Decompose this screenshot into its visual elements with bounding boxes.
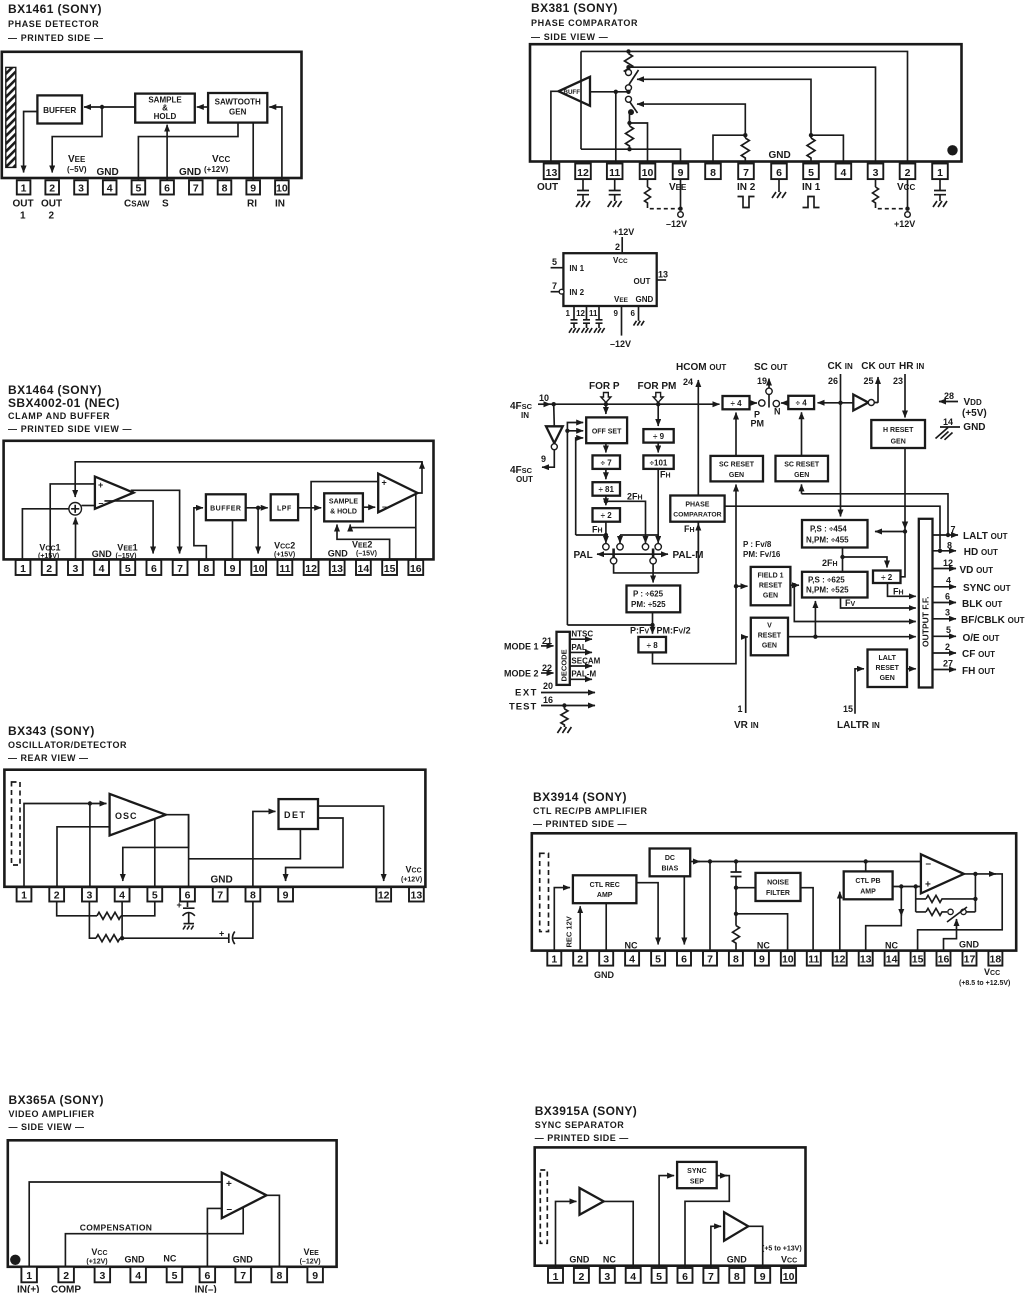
wire pin8 to DET input [253, 811, 276, 886]
svg-text:1: 1 [20, 211, 26, 222]
svg-text:RESET: RESET [758, 633, 782, 640]
svg-text:10: 10 [539, 393, 549, 403]
svg-text:÷ 7: ÷ 7 [601, 458, 613, 467]
svg-text:MODE 2: MODE 2 [504, 669, 539, 679]
svg-text:4: 4 [629, 954, 635, 966]
wire node a down to pin13 [900, 887, 902, 917]
svg-text:BX3914 (SONY): BX3914 (SONY) [533, 790, 627, 804]
wire summing to opamp1 inverting [82, 505, 95, 507]
svg-text:H RESET: H RESET [883, 427, 914, 434]
svg-text:8: 8 [947, 541, 952, 551]
resistor to pin8 [733, 888, 740, 951]
pin 3 [74, 180, 88, 194]
wire BUFF output to pin13 [551, 91, 559, 163]
phase comparator vertical pass + arrow into bottom [697, 496, 699, 573]
switch contact a [948, 909, 953, 914]
svg-text:15: 15 [912, 954, 924, 966]
pin 7 [173, 560, 188, 575]
svg-text:VEE: VEE [614, 295, 629, 304]
phase comparator block [670, 496, 724, 522]
buffer amp BUFF [559, 77, 591, 106]
pin 5 [167, 1267, 183, 1283]
pin 13 [544, 164, 560, 180]
svg-text:NOISE: NOISE [767, 880, 789, 887]
pin 14 [356, 560, 371, 575]
wire SC2 feedback rail to LALT line [802, 494, 949, 535]
wire sync sep out to pin6 [717, 1175, 727, 1177]
svg-text:— SIDE VIEW —: — SIDE VIEW — [9, 1122, 85, 1132]
node TEST pulldown [562, 703, 566, 707]
svg-text:OSCILLATOR/DETECTOR: OSCILLATOR/DETECTOR [8, 740, 127, 750]
wire div4N output to contact [781, 402, 788, 404]
svg-text:CSAW: CSAW [124, 199, 150, 210]
svg-text:(–15V): (–15V) [356, 551, 377, 558]
svg-text:DECODE: DECODE [560, 649, 569, 681]
svg-text:IN(–): IN(–) [195, 1285, 217, 1293]
CTL PB AMP block [844, 871, 893, 899]
pin 5 [652, 1268, 667, 1283]
external resistor at pin3 (dashed) [873, 179, 879, 204]
svg-text:26: 26 [828, 376, 838, 386]
svg-text:GEN: GEN [729, 472, 744, 479]
svg-text:VIDEO AMPLIFIER: VIDEO AMPLIFIER [9, 1109, 95, 1119]
svg-text:FOR PM: FOR PM [638, 381, 677, 392]
feedback resistor row1 [916, 895, 976, 902]
arrowhead up on feedback vertical [421, 462, 423, 467]
wire V reset out to output ff (O/E) [788, 636, 916, 638]
wire buffer2 out to pin9 [748, 1226, 763, 1267]
svg-text:NTSC: NTSC [571, 630, 593, 639]
svg-text:LALT OUT: LALT OUT [963, 531, 1008, 542]
svg-text:& HOLD: & HOLD [330, 509, 357, 516]
svg-text:CF OUT: CF OUT [962, 649, 995, 660]
wire div625a to Fv node [652, 612, 654, 625]
summing junction [69, 503, 82, 516]
ground under pin6 [778, 179, 780, 192]
OSC block [110, 794, 166, 836]
svg-text:–12V: –12V [666, 219, 687, 229]
wire pin4 down [121, 902, 123, 939]
wire IN1 pin5 [551, 267, 564, 269]
wire compensation pin2 [65, 1208, 243, 1267]
svg-text:+: + [98, 480, 103, 490]
svg-text:CLAMP AND BUFFER: CLAMP AND BUFFER [8, 411, 110, 421]
wire pin8 to BUFFER input [194, 508, 206, 560]
contact N [773, 400, 779, 406]
svg-text:VEE: VEE [304, 1247, 320, 1257]
wire div2 to FH node [605, 522, 607, 535]
svg-text:2FH: 2FH [627, 492, 643, 502]
svg-text:BX1464 (SONY): BX1464 (SONY) [8, 383, 102, 397]
wire FOR PM tap to div9 [657, 404, 659, 426]
wire R1 to pin5 [121, 902, 155, 916]
open terminal +12V [905, 212, 911, 218]
node H reset junction [903, 529, 907, 533]
pin 16 [408, 560, 423, 575]
wire Fv node to div8 [652, 625, 654, 634]
wire pin4 to IN1 node [811, 135, 843, 163]
wire pin6 to opamp minus [207, 1208, 221, 1266]
pin1 index dot [10, 1255, 20, 1265]
pin 2 [45, 180, 59, 194]
svg-text:— SIDE VIEW —: — SIDE VIEW — [531, 32, 608, 42]
pin 1 [932, 164, 948, 180]
open terminal -12V [678, 212, 684, 218]
wire sample-hold to buffer [84, 106, 135, 108]
dashed index bar [540, 1170, 547, 1243]
svg-text:GND: GND [594, 970, 615, 980]
svg-text:CK IN: CK IN [828, 361, 853, 372]
svg-text:RESET: RESET [759, 583, 783, 590]
node field1 tap [734, 584, 738, 588]
svg-text:18: 18 [990, 954, 1002, 966]
pin 1 [17, 887, 32, 901]
svg-text:13: 13 [331, 563, 343, 575]
output BLK [933, 602, 957, 604]
switch arm [947, 907, 967, 922]
svg-text:GEN: GEN [891, 439, 906, 446]
wire pin7 to buffer2 [711, 1226, 721, 1267]
svg-text:N,PM: ÷455: N,PM: ÷455 [806, 536, 849, 545]
node 2FH tap [604, 499, 608, 503]
svg-text:VCC: VCC [406, 865, 422, 875]
svg-text:FOR P: FOR P [589, 381, 620, 392]
wire LPF to sample&hold [298, 507, 321, 509]
wire OUT pin13 [657, 279, 666, 281]
svg-text:PM:FV/2: PM:FV/2 [657, 626, 691, 636]
svg-text:NC: NC [163, 1254, 176, 1264]
node CK in tap [838, 401, 842, 405]
pin 10 [275, 180, 289, 194]
pin 2 [58, 1267, 74, 1283]
svg-text:P : Fv/8: P : Fv/8 [743, 540, 772, 549]
svg-text:NC: NC [625, 941, 638, 951]
svg-text:(+12V): (+12V) [401, 877, 422, 884]
wire 4Fsc main rail [538, 403, 551, 405]
output BF/CBLK [933, 618, 957, 620]
node pin11 tap [614, 90, 618, 94]
wire pin12 to opamp2 plus [311, 482, 378, 560]
output CF [933, 652, 957, 654]
wire pin8 to IN2 node [713, 135, 745, 163]
pin 10 [251, 560, 266, 575]
wire pin3 vertical [89, 804, 91, 887]
output O/E [933, 635, 957, 637]
node NF input [734, 886, 738, 890]
svg-text:5: 5 [152, 890, 158, 902]
svg-text:7: 7 [951, 525, 956, 535]
svg-text:1: 1 [566, 309, 571, 318]
wire pin7 line to lower switch [637, 104, 745, 135]
svg-text:9: 9 [283, 890, 289, 902]
wire IN2 pin7 with bubble [551, 291, 560, 293]
cap lead pin1 [571, 306, 578, 328]
svg-text:1: 1 [20, 563, 26, 575]
P switch contact a [603, 544, 609, 550]
svg-text:9: 9 [760, 1271, 766, 1283]
node row1 right [973, 897, 977, 901]
pin1 index dot [947, 145, 957, 155]
divider by7 [593, 455, 621, 469]
pin 5 [132, 180, 146, 194]
IC body BX343 [4, 770, 425, 887]
svg-text:28: 28 [944, 391, 954, 401]
wire SC reset gen1 to div4 [735, 413, 737, 456]
svg-text:VEE: VEE [68, 154, 86, 165]
wire output vertical to rows [974, 874, 976, 912]
wire node to pin2 [52, 107, 102, 173]
pin 1 [16, 560, 31, 575]
pin 5 [147, 887, 162, 901]
svg-text:2: 2 [49, 211, 55, 222]
wire node to pin10 [257, 508, 259, 554]
svg-text:PAL-M: PAL-M [571, 670, 596, 679]
wire junction into div454 [875, 531, 905, 533]
svg-text:P : ÷625: P : ÷625 [633, 590, 664, 599]
svg-text:10: 10 [276, 183, 288, 195]
DC BIAS block [650, 849, 691, 877]
svg-text:BUFF: BUFF [564, 89, 581, 96]
svg-text:RI: RI [247, 199, 257, 210]
wire opamp out [964, 873, 996, 875]
svg-text:–: – [227, 1204, 233, 1215]
node FOR P tap [604, 402, 608, 406]
svg-text:8: 8 [276, 1270, 282, 1282]
wire FV out to output ff [841, 598, 916, 609]
label GND pin14 [940, 426, 960, 428]
wire R1 bottom to pin3 [629, 66, 876, 164]
svg-text:÷ 9: ÷ 9 [653, 432, 665, 441]
svg-text:SYNC: SYNC [687, 1168, 706, 1175]
pin 1 [548, 1268, 563, 1283]
wire FH rail left [576, 534, 606, 536]
wire opamp1 out to pin7 [132, 490, 180, 553]
svg-text:SC RESET: SC RESET [719, 462, 755, 469]
pin 3 [868, 164, 884, 180]
svg-text:3: 3 [72, 563, 78, 575]
H reset gen [871, 420, 925, 448]
wire top rail to Vcc pin2 [581, 51, 908, 163]
svg-text:VD OUT: VD OUT [960, 565, 994, 576]
switch arm lower [630, 102, 638, 114]
svg-text:+: + [226, 1179, 232, 1190]
external resistor at pin10 (dashed) [645, 179, 651, 204]
svg-text:19: 19 [757, 376, 767, 386]
V reset gen [751, 618, 788, 656]
node FH [604, 533, 608, 537]
wire inverter to 4Fsc out [542, 449, 554, 467]
svg-text:LPF: LPF [277, 506, 292, 513]
pin 7 [703, 1268, 718, 1283]
DET block [279, 799, 319, 829]
svg-text:SYNC OUT: SYNC OUT [963, 583, 1011, 594]
wire pin9 to buffer bottom [232, 520, 234, 560]
pin 4 [94, 560, 109, 575]
P switch contact b [617, 544, 623, 550]
svg-text:FV: FV [845, 598, 856, 608]
wire pin5 Csaw to sawtooth bottom [138, 123, 238, 181]
wire blob down to R2 [629, 112, 631, 123]
wire pin15 to S&H bottom left [337, 525, 390, 561]
wire offset to div7 [605, 443, 607, 452]
wire CKin node to inverter [841, 402, 879, 404]
svg-text:27: 27 [943, 659, 953, 669]
svg-text:(+12V): (+12V) [86, 1259, 107, 1266]
wire pin3 GND [605, 903, 607, 950]
wire decode out PAL-M [570, 678, 592, 680]
svg-text:4: 4 [107, 183, 113, 195]
wire pin16 to switch arm [944, 919, 957, 951]
pin 1 [17, 180, 31, 194]
svg-text:+: + [382, 478, 387, 488]
svg-text:BF/CBLK OUT: BF/CBLK OUT [961, 615, 1025, 626]
contact P/PM [759, 400, 765, 406]
wire DC BIAS out rail to opamp minus [690, 861, 700, 863]
wire HR IN vertical to H reset gen [904, 374, 906, 418]
pin 4 [626, 1268, 641, 1283]
wire SC reset gen2 to div4N [801, 412, 803, 456]
wire DET out2 to pin9 [286, 818, 343, 881]
wire PM wiper to div625 [652, 564, 654, 583]
OFF SET block [586, 417, 627, 443]
wire div8 out to field1/SC1 vertical [653, 492, 737, 664]
LPF block [271, 494, 298, 520]
DECODE block [557, 632, 570, 685]
svg-text:13: 13 [658, 270, 668, 280]
opamp U1 [222, 1173, 267, 1219]
wire buffer1 out to pin4 [604, 1201, 634, 1267]
buffer1 [580, 1188, 604, 1215]
wire 2FH to PM switch [606, 501, 646, 543]
svg-text:AMP: AMP [597, 892, 613, 899]
svg-text:16: 16 [543, 695, 553, 705]
svg-text:VCC: VCC [91, 1247, 107, 1257]
svg-text:9: 9 [678, 167, 684, 179]
wire cap to pin8 [234, 902, 253, 939]
pin 8 [272, 1267, 288, 1283]
svg-text:P,S : ÷454: P,S : ÷454 [810, 525, 847, 534]
SC reset gen 1 [711, 456, 764, 482]
svg-text:REC 12V: REC 12V [565, 916, 574, 947]
node buffer out [256, 506, 260, 510]
svg-text:BX365A (SONY): BX365A (SONY) [9, 1093, 104, 1107]
svg-text:DET: DET [284, 810, 307, 820]
wire FH to offset input3 [576, 438, 584, 535]
resistor R2 [626, 123, 634, 147]
svg-text:23: 23 [893, 376, 903, 386]
svg-text:9: 9 [759, 954, 765, 966]
svg-text:BX343 (SONY): BX343 (SONY) [8, 724, 95, 738]
svg-text:FH: FH [684, 524, 695, 534]
svg-text:8: 8 [734, 1271, 740, 1283]
output HD [933, 550, 957, 552]
wire CK OUT vertical [877, 377, 879, 403]
IC body BX1461 [2, 52, 302, 178]
svg-text:3: 3 [78, 183, 84, 195]
wire pin1 to OSC input [24, 804, 107, 887]
node b [914, 884, 918, 888]
svg-text:GEN: GEN [763, 593, 778, 600]
svg-text:(–5V): (–5V) [67, 165, 87, 174]
svg-text:VEE1: VEE1 [117, 543, 137, 553]
pin 10 [781, 1268, 796, 1283]
buffer block [206, 494, 246, 520]
svg-text:— REAR VIEW —: — REAR VIEW — [8, 753, 89, 763]
buffer U1 [37, 95, 82, 123]
IC body BX365A [8, 1140, 337, 1267]
pin 2 [42, 560, 57, 575]
svg-text:÷ 4: ÷ 4 [796, 399, 808, 408]
sawtooth gen block [208, 93, 267, 123]
svg-text:GEN: GEN [880, 675, 895, 682]
svg-text:GEN: GEN [229, 108, 247, 117]
node R2 bottom [627, 147, 631, 151]
svg-text:2: 2 [54, 890, 60, 902]
svg-text:OUT: OUT [13, 199, 34, 210]
P switch wiper bar [612, 549, 615, 558]
pin 8 [246, 887, 261, 901]
svg-text:4: 4 [946, 576, 951, 586]
pin 7 [738, 164, 754, 180]
wire pin9 down to -12V node [680, 179, 682, 210]
wire OSC out down to pin6 [188, 815, 190, 887]
svg-text:3: 3 [873, 167, 879, 179]
svg-text:SAMPLE: SAMPLE [329, 499, 359, 506]
svg-text:(+15V): (+15V) [274, 552, 295, 559]
svg-text:10: 10 [642, 167, 654, 179]
node pin10 branch [734, 912, 738, 916]
node +12V junction [905, 207, 909, 211]
pin 12 [376, 887, 391, 901]
svg-text:4: 4 [119, 890, 125, 902]
svg-text:5: 5 [656, 1271, 662, 1283]
svg-text:NC: NC [885, 941, 898, 951]
wire LALT reset out to output ff [907, 668, 916, 670]
svg-text:9: 9 [250, 183, 256, 195]
PM switch contact a [642, 544, 648, 550]
svg-text:+12V: +12V [613, 227, 634, 237]
svg-text:10: 10 [782, 954, 794, 966]
waveform IN2 negative pulse [738, 197, 755, 208]
wire pin16 branch to S&H bottom right [350, 525, 416, 528]
switch contact upper [626, 70, 632, 76]
svg-text:13: 13 [546, 167, 558, 179]
wire H reset gen down to div454 line [901, 448, 906, 577]
svg-text:NC: NC [757, 941, 770, 951]
svg-text:–12V: –12V [610, 339, 631, 349]
svg-text:RESET: RESET [876, 665, 900, 672]
wire sawtooth to sample&hold [197, 106, 208, 108]
svg-text:1: 1 [738, 704, 743, 714]
output SYNC [933, 586, 957, 588]
PM wiper bottom contact [650, 558, 656, 564]
svg-text:BUFFER: BUFFER [210, 506, 241, 513]
svg-text:GND: GND [963, 422, 985, 433]
pin 2 [574, 1268, 589, 1283]
svg-text:LALT: LALT [879, 655, 897, 662]
switch pole blob [628, 109, 634, 115]
svg-text:6: 6 [945, 592, 950, 602]
wire decode out PAL [570, 651, 592, 653]
svg-text:7: 7 [240, 1270, 246, 1282]
svg-text:8: 8 [222, 183, 228, 195]
opamp U3 [921, 854, 964, 893]
node -12V junction [678, 207, 682, 211]
svg-text:GND: GND [92, 549, 113, 559]
svg-text:12: 12 [834, 954, 846, 966]
resistor at pin5 IN1 [807, 135, 815, 163]
pin 4 [130, 1267, 146, 1283]
